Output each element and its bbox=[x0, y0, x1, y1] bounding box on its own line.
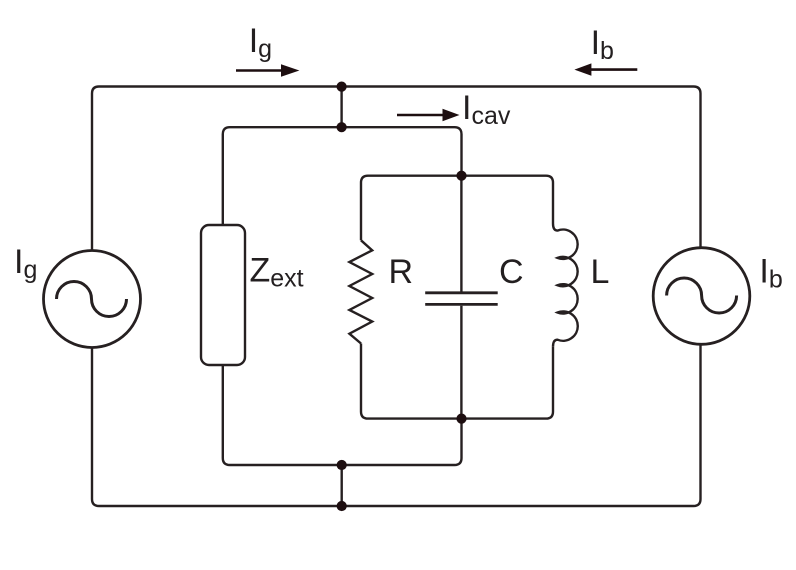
resistor R bbox=[349, 240, 372, 343]
wire: junction A to junction B vertical link bbox=[340, 87, 342, 128]
wire: cavity loop top (R top to L top) bbox=[361, 176, 553, 241]
svg-text:R: R bbox=[389, 253, 414, 291]
svg-text:L: L bbox=[591, 253, 610, 291]
wire: outer loop bottom (Ig source bottom to Ib source bottom) bbox=[92, 344, 701, 506]
svg-text:C: C bbox=[499, 253, 524, 291]
arrow Ib current (top right, pointing left) bbox=[574, 63, 637, 75]
wire: Zext loop bottom (Zext bottom to node E) bbox=[223, 365, 462, 466]
node E junction dot (Zext bottom wire x=341) bbox=[337, 460, 347, 470]
source U2 circle (right, Ib) bbox=[653, 248, 750, 345]
wire: outer loop top (Ig source top to Ib source top) bbox=[92, 87, 701, 251]
arrow Icav current (pointing right) bbox=[397, 109, 460, 121]
inductor L bbox=[553, 224, 578, 347]
wire: cavity loop bottom (R bottom to L bottom) bbox=[361, 344, 553, 419]
node D junction dot (cavity bottom x=461) bbox=[456, 414, 466, 424]
arrow Ig current (top left, pointing right) bbox=[236, 64, 299, 77]
source U2 sine symbol bbox=[667, 278, 737, 313]
wire: Zext loop top (Zext top to node B) bbox=[223, 127, 462, 225]
node B junction dot (Zext top wire x=341) bbox=[337, 122, 347, 132]
source U1 sine symbol bbox=[57, 282, 127, 317]
node C junction dot (cavity top x=461) bbox=[456, 171, 466, 181]
node A junction dot (top wire x=341) bbox=[337, 82, 347, 92]
wire: junction E to junction F vertical link bbox=[341, 465, 343, 506]
impedance Zext box bbox=[201, 225, 245, 365]
capacitor C bbox=[425, 293, 498, 305]
wire: capacitor branch vertical bbox=[460, 176, 462, 419]
node F junction dot (bottom wire x=341) bbox=[337, 501, 347, 511]
source U1 circle (left, Ig) bbox=[44, 251, 141, 348]
